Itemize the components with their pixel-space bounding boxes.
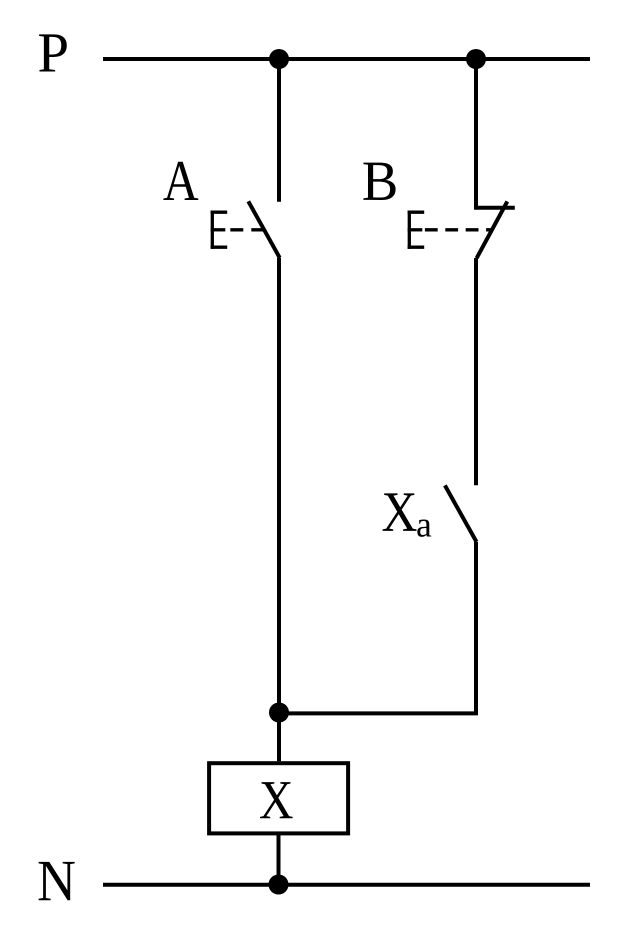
wire: switch B down to switch Xa [474, 258, 478, 485]
dashed link E to switch B blade [425, 228, 494, 231]
coil X box [209, 763, 348, 833]
rail P (top horizontal bus) [103, 57, 590, 61]
node junction dot [269, 703, 289, 723]
wire: coil X down to N rail [277, 833, 281, 885]
wire: P rail down to switch B [474, 59, 478, 209]
switch Xa blade (NO contact) [445, 485, 477, 542]
wire: switch Xa down and left to node [279, 542, 476, 714]
label A [163, 162, 198, 200]
switch A blade (NO contact) [248, 201, 279, 257]
junction dot at N rail [269, 875, 289, 895]
dashed link E to switch A blade [230, 228, 264, 231]
actuator E of switch A [211, 211, 228, 249]
wire: switch A down to node [277, 258, 281, 761]
actuator E of switch B [408, 211, 425, 249]
switch B blade (NC contact) [477, 202, 508, 259]
label B [363, 163, 395, 200]
rail N (bottom horizontal bus) [103, 883, 590, 887]
coil X label [260, 782, 293, 818]
label Xa subscript a [417, 519, 431, 536]
label P [39, 34, 67, 71]
label Xa [383, 493, 417, 530]
switch B crossbar (NC contact seat) [474, 206, 515, 210]
junction dot at P rail / branch B [466, 49, 486, 69]
label N [39, 862, 75, 900]
junction dot at P rail / branch A [269, 49, 289, 69]
wire: P rail down to switch A [277, 59, 281, 202]
